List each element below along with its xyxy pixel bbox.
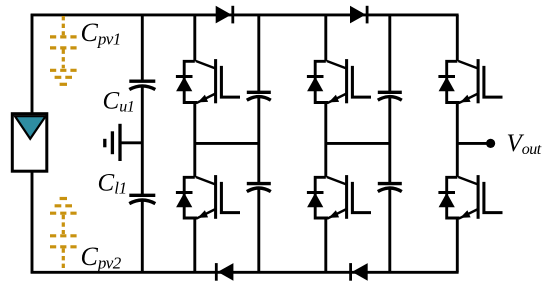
wire Cu1 to Cl1 (midpoint column) bbox=[141, 86, 144, 195]
label Cpv2 bbox=[81, 242, 122, 272]
capacitor C2 (lower) bbox=[247, 184, 271, 192]
wire DC+ to Cu1 bbox=[141, 15, 144, 82]
label Cu1 bbox=[103, 88, 135, 116]
capacitor Cu1 bbox=[129, 81, 155, 89]
diode D3 (bottom rail, leg1-leg2) bbox=[216, 263, 233, 281]
PV panel source bbox=[12, 114, 47, 172]
label Cpv1 bbox=[81, 18, 121, 48]
antiparallel diode of S2 bbox=[176, 193, 193, 208]
wire top rail (DC+) bbox=[31, 13, 459, 16]
label Cl1 bbox=[98, 170, 127, 198]
wire leg5 middle bbox=[456, 103, 459, 178]
wire Cl1 to DC- bbox=[141, 200, 144, 272]
wire leg2 to DC- bbox=[257, 189, 260, 273]
wire leg3 to DC- bbox=[324, 218, 327, 272]
wire leg3 from DC+ bbox=[324, 15, 327, 61]
IGBT S3 bbox=[327, 59, 371, 103]
wire output stub bbox=[457, 142, 487, 145]
wire leg5 to DC- bbox=[456, 218, 459, 272]
wire leg5 from DC+ bbox=[456, 15, 459, 61]
antiparallel diode of S4 bbox=[307, 193, 324, 208]
wire left rail upper segment bbox=[31, 14, 34, 115]
wire leg1 middle bbox=[193, 103, 196, 178]
antiparallel diode of S3 bbox=[307, 77, 324, 92]
capacitor C4 (lower) bbox=[378, 184, 402, 192]
wire leg1 from DC+ bbox=[193, 15, 196, 61]
capacitor C1 (upper) bbox=[247, 92, 271, 100]
wire midpoint leg3-leg4 bbox=[326, 142, 390, 145]
node Vout bbox=[486, 139, 495, 148]
label Vout bbox=[507, 130, 542, 158]
IGBT S5 bbox=[458, 59, 502, 103]
capacitor C3 (upper) bbox=[378, 92, 402, 100]
antiparallel diode of S1 bbox=[176, 77, 193, 92]
antiparallel diode of S6 bbox=[438, 193, 455, 208]
wire leg4 to DC- bbox=[388, 189, 391, 273]
antiparallel diode of S5 bbox=[438, 77, 455, 92]
wire left rail lower segment bbox=[31, 170, 34, 273]
diode D2 (top rail, leg3-leg4) bbox=[350, 6, 367, 24]
ground (neutral point) bbox=[105, 124, 144, 161]
wire S6 cell frame bbox=[447, 177, 460, 218]
IGBT S1 bbox=[196, 59, 240, 103]
wire S1 cell frame bbox=[184, 61, 197, 102]
svg-text:Cl1: Cl1 bbox=[98, 170, 127, 198]
diode D1 (top rail, leg1-leg2) bbox=[216, 6, 233, 24]
wire leg4 middle bbox=[388, 97, 391, 184]
wire S3 cell frame bbox=[315, 61, 328, 102]
wire leg1 to DC- bbox=[193, 218, 196, 272]
svg-text:Vout: Vout bbox=[507, 130, 542, 158]
wire S4 cell frame bbox=[315, 177, 328, 218]
wire bottom rail (DC-) bbox=[31, 271, 459, 274]
svg-text:Cpv2: Cpv2 bbox=[81, 242, 122, 272]
wire S5 cell frame bbox=[447, 61, 460, 102]
wire leg3 middle bbox=[324, 103, 327, 178]
IGBT S2 bbox=[196, 175, 240, 219]
capacitor Cpv2 (dashed parasitic, to ground) bbox=[50, 199, 77, 271]
wire leg2 middle bbox=[257, 97, 260, 184]
IGBT S4 bbox=[327, 175, 371, 219]
IGBT S6 bbox=[458, 175, 502, 219]
wire leg2 from DC+ bbox=[257, 15, 260, 93]
capacitor Cpv1 (dashed parasitic, to ground) bbox=[50, 16, 77, 84]
svg-text:Cu1: Cu1 bbox=[103, 88, 135, 116]
wire S2 cell frame bbox=[184, 177, 197, 218]
capacitor Cl1 bbox=[129, 195, 155, 203]
wire midpoint leg1-leg2 bbox=[195, 142, 259, 145]
diode D4 (bottom rail, leg3-leg4) bbox=[351, 263, 368, 281]
wire leg4 from DC+ bbox=[388, 15, 391, 93]
svg-text:Cpv1: Cpv1 bbox=[81, 18, 121, 48]
